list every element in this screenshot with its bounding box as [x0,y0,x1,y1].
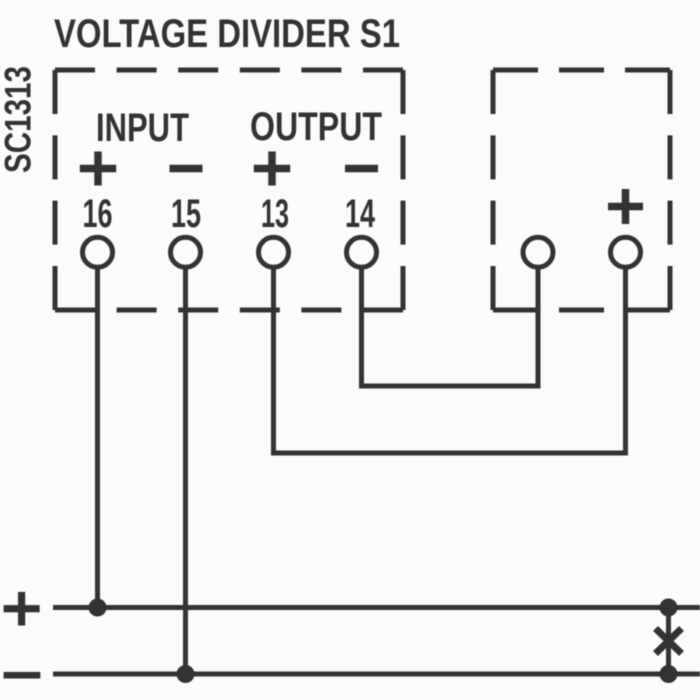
polarity + meter [608,189,643,224]
- bus [53,672,700,677]
wire pin14 to meter left terminal [362,270,539,387]
wire pin13 to meter right terminal [274,270,626,454]
svg-text:13: 13 [261,192,289,236]
svg-text:14: 14 [345,192,376,236]
polarity - input [170,165,203,173]
svg-text:OUTPUT: OUTPUT [250,105,382,149]
terminal 15 [171,237,201,267]
junction link on - bus [660,665,678,683]
junction pin15 on - bus [177,665,195,683]
polarity + output [254,152,290,186]
module S1 voltage divider dashed box [55,70,403,310]
meter dashed box [493,70,670,310]
twist X symbol on link wire [656,629,682,654]
meter terminal right [611,237,641,267]
terminal 16 [83,237,113,267]
meter terminal left [523,237,553,267]
junction link on + bus [660,599,678,617]
link wire + bus to - bus [666,608,671,675]
bus label - [4,672,41,679]
terminal 13 [259,237,289,267]
svg-text:INPUT: INPUT [96,106,189,150]
junction pin16 on + bus [89,599,107,617]
svg-text:SC1313: SC1313 [0,66,39,173]
svg-text:16: 16 [83,192,113,236]
svg-text:VOLTAGE DIVIDER S1: VOLTAGE DIVIDER S1 [54,12,400,56]
+ bus [53,605,700,610]
wire pin15 to - bus [183,270,188,675]
polarity + input [80,152,116,186]
terminal 14 [347,237,377,267]
polarity - output [345,165,378,173]
svg-text:15: 15 [171,192,201,236]
wire pin16 to + bus [95,270,100,608]
bus label + [4,592,40,626]
